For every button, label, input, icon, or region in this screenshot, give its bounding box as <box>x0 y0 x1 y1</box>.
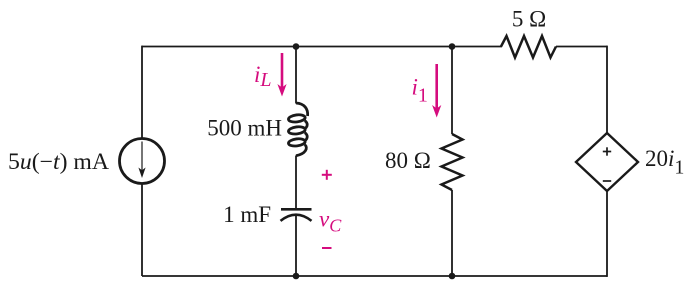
voltage label vC minus <box>322 247 332 249</box>
svg-text:5 Ω: 5 Ω <box>512 7 546 32</box>
wire capacitor to bottom <box>295 215 297 276</box>
wire right vertical upper <box>606 46 608 133</box>
current arrow iL <box>277 53 286 97</box>
wire right vertical lower <box>606 191 608 277</box>
capacitor C1 bottom curved plate <box>281 215 312 221</box>
dependent source plus <box>603 147 611 155</box>
current arrow i1 <box>432 64 441 118</box>
node dot top inductor <box>293 43 300 50</box>
capacitor C1 top plate <box>281 208 312 211</box>
wire top-right (resistor to right corner) <box>556 46 607 48</box>
wire bottom horizontal <box>142 275 607 277</box>
wire 80-ohm branch upper <box>451 47 453 135</box>
dependent source diamond <box>576 133 638 191</box>
svg-text:5u(−t) mA: 5u(−t) mA <box>8 149 109 174</box>
wire inductor branch upper <box>295 47 297 104</box>
wire left vertical upper <box>141 46 143 139</box>
wire inductor-capacitor middle <box>295 156 297 210</box>
dependent source minus <box>603 180 611 182</box>
resistor 80 ohm zigzag <box>442 134 463 190</box>
wire left vertical lower <box>141 184 143 277</box>
node dot bottom 80-ohm <box>449 273 456 280</box>
svg-text:80 Ω: 80 Ω <box>385 148 431 173</box>
svg-text:1 mF: 1 mF <box>223 202 271 227</box>
resistor 5 ohm zigzag <box>501 36 556 58</box>
current source I1 circle <box>120 139 165 184</box>
node dot top 80-ohm <box>449 43 456 50</box>
node dot bottom inductor <box>293 273 300 280</box>
svg-text:500 mH: 500 mH <box>207 116 282 141</box>
voltage label vC plus <box>322 170 332 180</box>
inductor L1 coil <box>288 103 308 156</box>
current source arrow <box>138 142 145 179</box>
wire top-left horizontal (left corner to 5-ohm resistor) <box>142 46 502 48</box>
wire 80-ohm branch lower <box>451 190 453 276</box>
